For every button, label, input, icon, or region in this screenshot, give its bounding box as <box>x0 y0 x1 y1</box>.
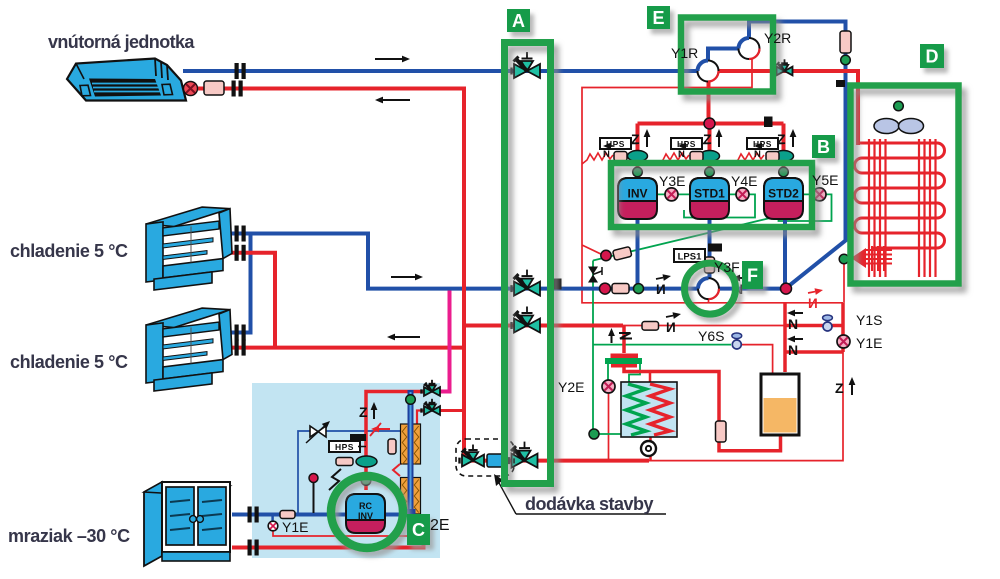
flow arrow left (top) <box>375 97 410 104</box>
reversing valve Y3F <box>698 278 719 299</box>
wire: D outlet line down right side of ladder (thin from green dot) <box>843 263 845 303</box>
RC Z arrow <box>359 402 377 420</box>
wire: freezer suction line <box>232 513 346 517</box>
header tick <box>764 117 773 128</box>
suction tick <box>552 279 562 290</box>
wire: subcooler outlet to receiver bottom <box>624 366 781 451</box>
condenser fins <box>869 139 936 277</box>
highlight box A <box>505 43 551 484</box>
svg-text:Y6S: Y6S <box>698 328 724 344</box>
N arrow INV <box>603 143 613 160</box>
compressor STD2 <box>764 178 803 219</box>
condenser fan motor dot <box>894 101 904 111</box>
valve Y1E <box>837 335 850 348</box>
Z arrow STD1 <box>703 129 722 147</box>
badge F <box>742 261 763 289</box>
svg-text:LPS1: LPS1 <box>678 252 702 263</box>
svg-text:dodávka stavby: dodávka stavby <box>525 494 654 514</box>
svg-text:C: C <box>412 520 425 540</box>
RC box valve lower <box>422 399 441 415</box>
valve Y4E <box>736 188 749 201</box>
svg-text:Y1S: Y1S <box>856 312 882 328</box>
box A valve on main suction <box>512 270 541 296</box>
hand valve on oil line <box>588 267 602 283</box>
svg-text:Y1E: Y1E <box>282 519 308 535</box>
subcooler coil columns <box>401 424 421 514</box>
wire: subcooler solenoid drops <box>607 363 609 381</box>
crankcase heater STD2 <box>733 153 764 164</box>
badge A <box>507 9 530 32</box>
highlight box D <box>851 86 959 284</box>
svg-text:Y4E: Y4E <box>731 173 757 189</box>
subcooler solenoid sandwich <box>605 354 642 368</box>
box A valve on bottom main <box>509 442 538 468</box>
wire: right network ladder <box>783 303 787 372</box>
RC pressure sensor <box>388 439 396 454</box>
Z arrow INV <box>631 129 650 147</box>
RC compressor <box>346 494 385 533</box>
svg-text:Z: Z <box>359 404 368 420</box>
svg-text:И: И <box>666 320 676 335</box>
svg-text:Z: Z <box>631 131 640 147</box>
crankcase heater INV <box>582 153 613 164</box>
cooler display case 2 <box>146 304 232 392</box>
green dot on HX green line <box>589 429 599 439</box>
svg-text:HPS: HPS <box>753 139 772 149</box>
svg-text:D: D <box>926 47 939 67</box>
RC lightning sensor <box>329 469 341 490</box>
valve Y1S <box>823 315 833 331</box>
svg-text:RC: RC <box>359 501 372 511</box>
valve Y5E <box>813 188 826 201</box>
badge E <box>647 6 670 29</box>
wire: coolers liquid header <box>232 346 464 350</box>
wire: oil line STD2 to Y5E and loop under STD2 <box>779 194 832 221</box>
receiver inlet filter <box>716 421 727 442</box>
N arrow STD1 <box>678 143 688 160</box>
RC unit enclosure panel <box>252 383 440 558</box>
indoor unit expansion valve <box>184 82 198 96</box>
pipe break cooler1 liquid <box>235 245 246 261</box>
svg-text:Y3F: Y3F <box>714 259 740 275</box>
svg-text:N: N <box>788 316 798 332</box>
suction junction dot <box>600 283 611 294</box>
wire: oil equalisation diagonal <box>593 216 779 261</box>
wire: Y3F bottom port stub <box>708 297 710 303</box>
N arrow upper <box>787 310 803 332</box>
svg-text:Z: Z <box>777 131 786 147</box>
symbol I-arrow on thin liquid line <box>666 312 681 335</box>
condenser inlet arrow <box>851 246 892 271</box>
discharge header junction <box>704 118 715 129</box>
pipe break cooler2 suction <box>235 325 246 341</box>
suction junction at D outlet <box>781 283 792 294</box>
symbol N-arrow right of Y3F <box>732 275 748 297</box>
wire: compressor discharge header <box>707 81 711 124</box>
pipe break cooler1 suction <box>235 226 246 242</box>
INV suction service circle <box>633 167 643 177</box>
condenser coil <box>855 143 945 248</box>
subcooler centre tube <box>406 390 416 517</box>
wire: INV compressor suction <box>636 219 640 289</box>
reversing valve Y1R <box>698 61 719 82</box>
riser tick <box>836 80 845 87</box>
wire: RC discharge riser <box>366 392 425 491</box>
HPS switch STD2 <box>747 138 778 149</box>
heater filter STD1 <box>690 152 703 162</box>
subcooler red link <box>393 464 400 476</box>
compressor STD1 <box>690 178 729 219</box>
RC check valve arrow <box>370 423 390 436</box>
valve Y2E <box>602 380 615 393</box>
pipe break cooler2 liquid <box>235 340 246 356</box>
svg-text:HPS: HPS <box>677 139 696 149</box>
svg-text:HPS: HPS <box>335 442 354 452</box>
wire: subcooler branch valve line <box>439 409 464 412</box>
svg-text:STD1: STD1 <box>694 187 725 201</box>
svg-text:mraziak –30 °C: mraziak –30 °C <box>8 526 130 546</box>
wire: Y6S outlet to receiver top <box>741 345 773 376</box>
svg-text:N: N <box>603 149 610 160</box>
svg-text:И: И <box>808 296 818 311</box>
wire: liquid line thin from bottom main up to Y1E valve <box>649 352 843 461</box>
valve Y1E freezer <box>268 521 278 531</box>
HPS switch INV <box>600 138 631 149</box>
pipe break indoor liquid <box>232 81 243 97</box>
wire: freezer thin suction to expansion device <box>298 431 404 513</box>
STD1 suction service circle <box>705 167 715 177</box>
valve Y6S <box>732 333 742 349</box>
svg-text:Y3E: Y3E <box>659 173 685 189</box>
wire: RC compressor outlet to subcooler <box>385 513 407 517</box>
RC service dot <box>361 476 371 486</box>
site supply valve <box>460 445 485 467</box>
svg-text:Y1R: Y1R <box>671 45 698 61</box>
indoor unit filter <box>204 81 224 95</box>
wire: Y2E drop to bottom main <box>608 392 610 461</box>
wire: green line down to heat exchanger <box>593 261 623 435</box>
wire: defrost gas line (magenta) <box>439 291 450 392</box>
crankcase heater STD1 <box>658 153 689 164</box>
valve on condenser feed <box>774 59 793 75</box>
svg-text:N: N <box>754 149 761 160</box>
riser green dot <box>841 55 851 65</box>
site supply sight glass <box>487 454 507 467</box>
svg-text:vnútorná jednotka: vnútorná jednotka <box>48 32 195 52</box>
svg-text:B: B <box>817 137 830 157</box>
wire: liquid branch through box A valve <box>464 324 623 328</box>
svg-text:F: F <box>747 266 758 286</box>
RC oil ball <box>309 474 318 514</box>
suction filter <box>612 284 629 294</box>
LPS1 sensor body <box>705 257 715 273</box>
box A valve on liquid branch <box>512 307 541 333</box>
LPS1 switch box <box>674 249 705 263</box>
RC discharge damper <box>356 456 377 467</box>
flow arrow right (suction) <box>391 274 423 281</box>
cooler display case 1 <box>146 203 232 291</box>
svg-text:Z: Z <box>703 131 712 147</box>
N arrow lower <box>787 336 803 358</box>
wire: thin liquid line to right ladder <box>623 325 785 327</box>
svg-text:Y2R: Y2R <box>764 30 791 46</box>
freezer suction filter <box>280 511 295 519</box>
RC box valve upper <box>422 380 441 396</box>
Z arrow right <box>835 377 855 396</box>
heat exchanger Y2E <box>621 382 677 437</box>
svg-text:И: И <box>656 282 666 297</box>
HPS switch STD1 <box>671 138 702 149</box>
subcooler green dot top <box>406 395 416 405</box>
N arrow STD2 <box>754 143 764 160</box>
RC HPS box <box>329 441 360 452</box>
wire: sandwich feed from liquid branch <box>622 326 626 354</box>
RC filter <box>336 458 353 466</box>
green dot at D outlet <box>839 254 849 264</box>
STD2 discharge damper <box>774 151 794 162</box>
svg-text:STD2: STD2 <box>768 187 799 201</box>
HX drain circle <box>641 441 656 456</box>
svg-text:N: N <box>678 149 685 160</box>
valve Y3E <box>665 188 678 201</box>
svg-text:INV: INV <box>358 511 373 521</box>
wire: oil line STD1 to Y4E and loop under STD1 <box>684 194 755 217</box>
filter on thin liquid line <box>642 322 659 331</box>
badge B <box>812 135 835 158</box>
svg-text:Y2E: Y2E <box>558 379 584 395</box>
wire: freezer liquid injection line from Y1E <box>273 530 419 536</box>
reversing valve Y2R <box>739 38 760 59</box>
highlight box B <box>611 163 812 227</box>
svg-text:E: E <box>652 8 664 28</box>
indoor cassette unit <box>67 59 186 101</box>
wire: STD1 compressor suction via LPS <box>708 219 712 278</box>
wire: indoor unit suction line <box>183 69 699 73</box>
STD1 discharge damper <box>700 151 720 162</box>
check symbol at sandwich <box>608 328 632 343</box>
receiver vessel <box>761 374 799 435</box>
wire: coolers suction header <box>229 234 700 289</box>
wire: heat exchanger liquid drop <box>649 437 652 461</box>
wire: crankcase heater supply drop to junction <box>582 245 604 256</box>
flow arrow left (liquid) <box>387 334 420 341</box>
svg-text:A: A <box>512 11 525 31</box>
freezer cabinet <box>144 482 230 566</box>
pipe break freezer liquid <box>248 540 259 556</box>
symbol I-arrow red <box>808 288 823 311</box>
compressor INV <box>618 178 657 219</box>
riser pink damper <box>840 31 851 53</box>
badge D <box>920 44 944 68</box>
svg-text:Y5E: Y5E <box>812 172 838 188</box>
RC expansion device <box>306 421 330 443</box>
svg-text:chladenie 5 °C: chladenie 5 °C <box>10 352 128 372</box>
LPS1 tick <box>708 244 722 252</box>
wire: main suction after Y3F <box>717 287 786 291</box>
suction green service dot <box>634 284 644 294</box>
heater filter STD2 <box>766 152 779 162</box>
pointer to dashed box <box>494 474 666 514</box>
svg-text:2E: 2E <box>430 517 450 534</box>
badge C <box>407 514 430 545</box>
INV discharge damper <box>628 151 648 162</box>
svg-text:Y1E: Y1E <box>856 335 882 351</box>
wire: oil line INV to Y3E to STD1 <box>656 193 689 195</box>
pipe break indoor suction <box>235 63 246 79</box>
symbol I-arrow on suction <box>656 274 671 297</box>
RC tick <box>350 434 366 441</box>
wire: hot-gas aux line from Y2R down and across to right header <box>582 56 843 303</box>
highlight box E <box>681 18 773 92</box>
junction on heater rail <box>601 250 611 260</box>
condenser fan <box>874 119 924 134</box>
wire: reversing valve gas line to condenser D <box>708 22 846 289</box>
dodavka stavby dashed box <box>456 439 514 476</box>
wire: Y6S vapour line <box>593 344 731 346</box>
flow arrow right (top) <box>375 56 410 63</box>
wire: indoor unit liquid line down to bottom main <box>187 89 464 461</box>
box A valve on indoor suction <box>512 52 541 78</box>
highlight ring C <box>331 476 403 548</box>
heater filter INV <box>614 152 627 162</box>
svg-text:N: N <box>788 342 798 358</box>
svg-text:chladenie 5 °C: chladenie 5 °C <box>10 241 128 261</box>
wire: bottom liquid main <box>464 459 649 463</box>
Z arrow STD2 <box>777 129 796 147</box>
STD2 suction service circle <box>779 167 789 177</box>
wire: STD2 compressor suction <box>783 219 787 289</box>
wire: cooler 2 suction riser <box>229 232 251 333</box>
wire: freezer liquid line <box>232 528 424 548</box>
highlight ring F <box>685 263 736 314</box>
svg-text:INV: INV <box>627 187 647 201</box>
svg-text:Z: Z <box>835 380 844 396</box>
pipe break freezer suction <box>248 507 259 523</box>
wire: condenser feed from Y1R <box>718 71 858 145</box>
oil sensor <box>613 246 632 260</box>
